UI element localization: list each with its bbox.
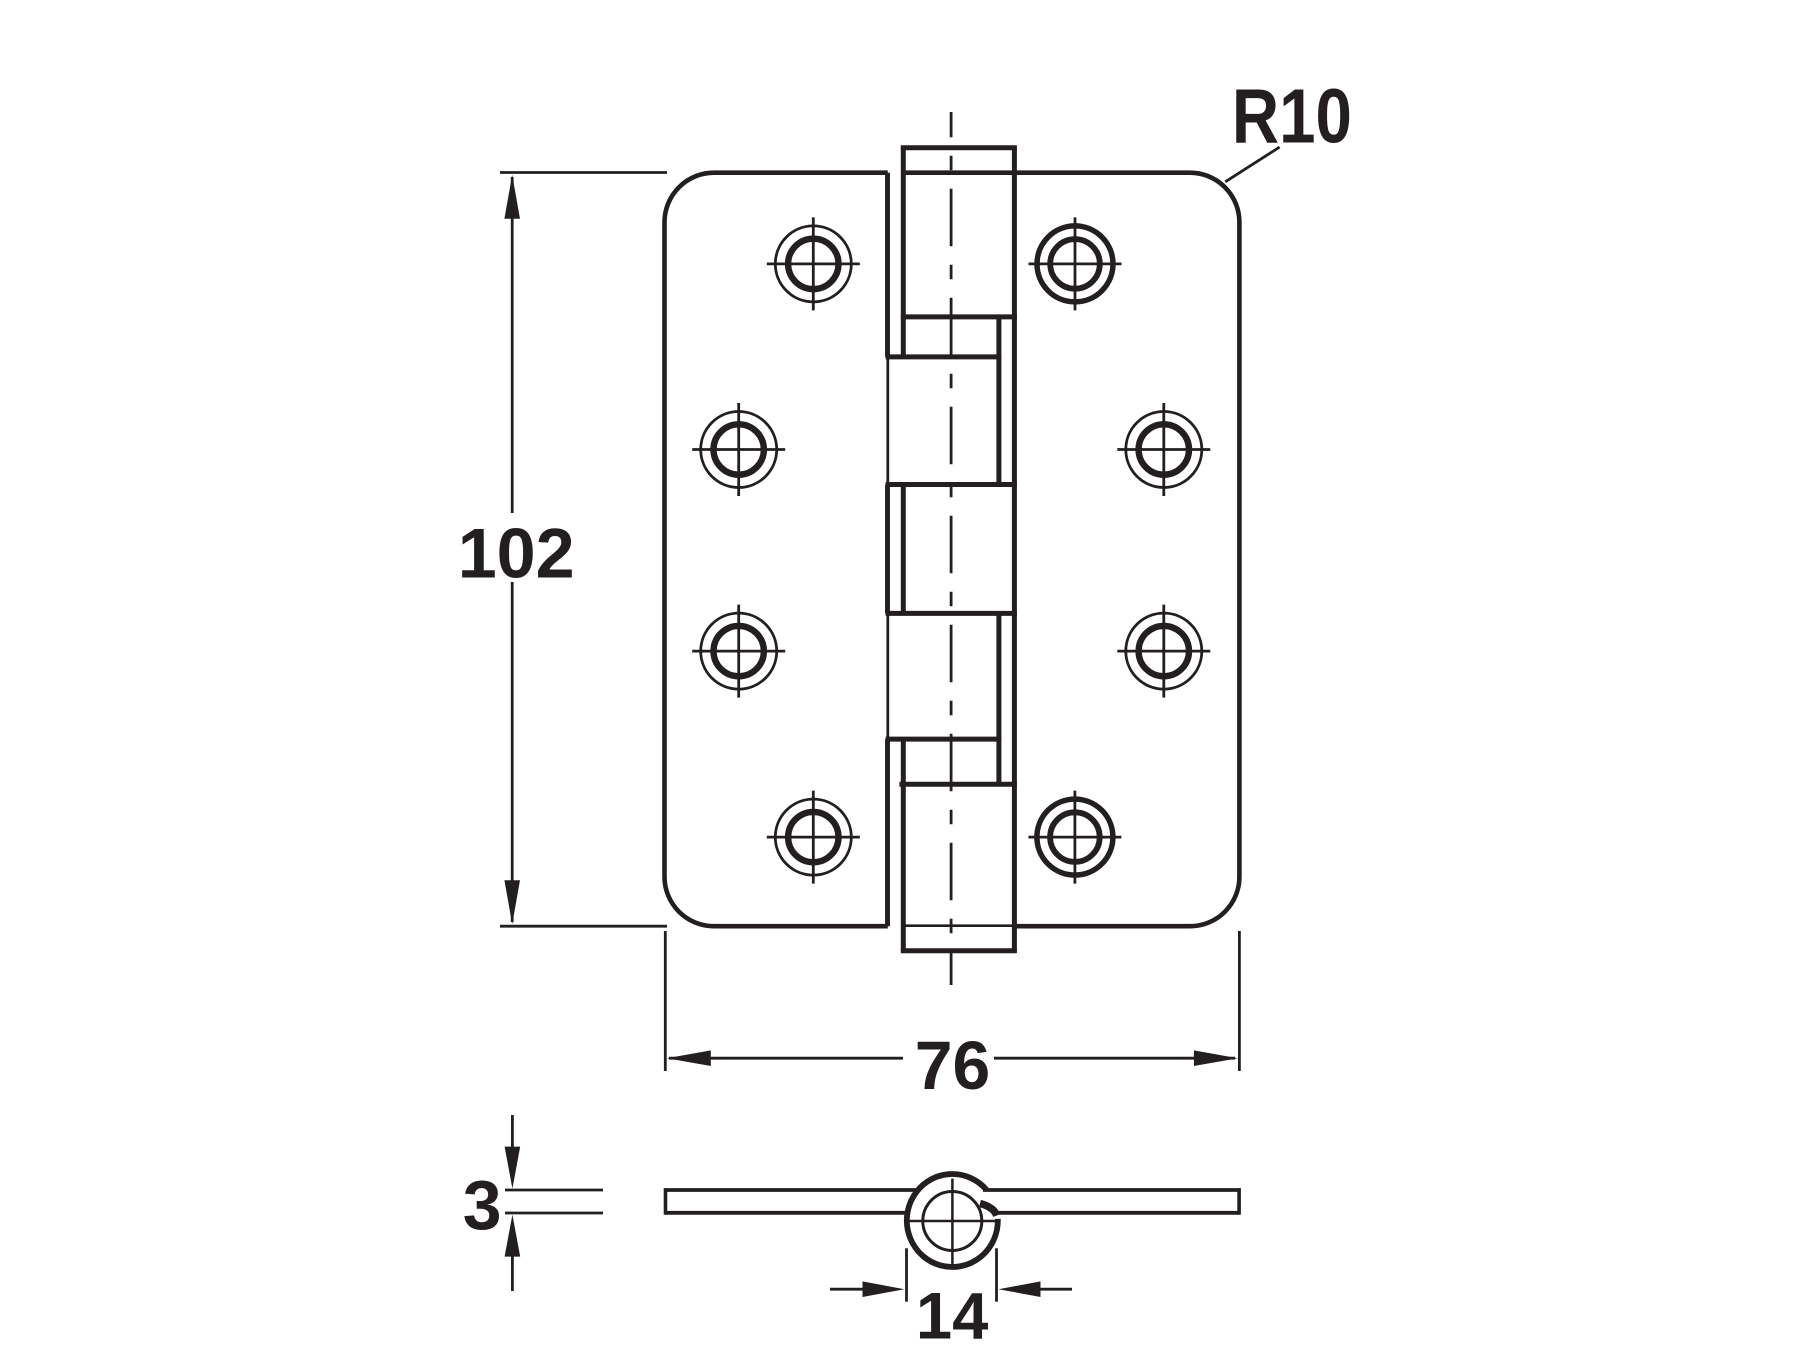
svg-text:76: 76 — [915, 1027, 991, 1104]
screw hole row3 right — [1117, 605, 1210, 698]
knuckle left wall segment 2 — [901, 485, 906, 614]
screw hole row1 left — [767, 217, 860, 310]
profile barrel outer ring (open at seam) — [907, 1174, 998, 1267]
profile left leaf bottom line — [666, 1211, 907, 1215]
knuckle slot left edge (thin parts) — [886, 357, 889, 485]
knuckle joint line C — [886, 482, 1017, 487]
screw hole row3 left — [692, 605, 785, 698]
plate bottom edge thin segment under pin cap — [903, 924, 1014, 927]
dimension 14 arrow right-pointing — [863, 1281, 905, 1297]
dimension 102 extension line top — [500, 171, 667, 174]
knuckle inner right wall upper — [996, 317, 1001, 485]
dimension 76 arrow right — [1194, 1050, 1238, 1066]
knuckle joint line E — [886, 737, 1002, 742]
profile pin circle — [923, 1192, 982, 1251]
svg-text:14: 14 — [916, 1279, 989, 1350]
screw hole row2 left — [692, 403, 785, 496]
dimension 3 arrow up — [505, 1215, 521, 1257]
radius label leader line — [1225, 147, 1279, 182]
profile left leaf end cap — [664, 1188, 668, 1215]
dimension 76 arrow left — [667, 1050, 711, 1066]
screw hole row4 right — [1028, 791, 1121, 884]
hinge leaf outline (rounded plate, right portion) — [903, 173, 1239, 927]
dimension 3 extension line bottom — [505, 1212, 603, 1215]
knuckle joint line F — [899, 782, 1017, 787]
dimension 14 extension line right — [995, 1248, 998, 1301]
knuckle outer right wall — [1012, 148, 1017, 951]
profile leaf curl wedge — [980, 1204, 997, 1216]
dimension 3 upper shaft — [511, 1115, 514, 1150]
knuckle joint line B — [886, 354, 1002, 359]
knuckle left wall segment 1 — [901, 148, 906, 357]
profile pin crosshair vertical — [951, 1179, 954, 1265]
screw hole row4 left — [767, 791, 860, 884]
profile right leaf top line — [983, 1188, 1239, 1192]
dimension 76 line right segment — [994, 1057, 1235, 1060]
dimension 102 arrow up — [504, 175, 520, 219]
dimension 14 arrow left-pointing — [999, 1281, 1041, 1297]
knuckle left wall segment 3 — [901, 739, 906, 951]
dimension 3 arrow down — [505, 1147, 521, 1189]
screw hole row2 right — [1117, 403, 1210, 496]
dimension 14 left shaft — [830, 1288, 865, 1291]
dimension 102 line upper segment — [511, 177, 514, 513]
knuckle joint line A — [901, 314, 1017, 319]
dimension 3 extension line top — [505, 1189, 603, 1192]
dimension 76 extension line left — [664, 931, 667, 1071]
dimension 76 line left segment — [669, 1057, 903, 1060]
dimension 14 extension line left — [905, 1248, 908, 1301]
screw hole row1 right — [1029, 217, 1122, 310]
pin bottom cap — [901, 948, 1017, 953]
profile right leaf bottom line — [997, 1211, 1239, 1215]
dimension 102 line lower segment — [511, 582, 514, 922]
knuckle joint line D — [886, 611, 1017, 616]
knuckle inner right wall lower — [996, 613, 1001, 784]
dimension 102 extension line bottom — [500, 925, 667, 928]
pin centerline (dash-dot) — [950, 112, 953, 985]
profile left leaf top line — [666, 1188, 918, 1192]
svg-text:R10: R10 — [1232, 73, 1352, 159]
profile right leaf end cap — [1237, 1188, 1241, 1215]
knuckle slot left edge (thick parts) — [885, 173, 890, 357]
pin top cap — [901, 145, 1017, 150]
svg-text:102: 102 — [458, 514, 575, 593]
dimension 76 extension line right — [1238, 931, 1241, 1071]
dimension 14 right shaft — [1038, 1288, 1072, 1291]
svg-text:3: 3 — [463, 1166, 502, 1244]
hinge leaf outline (rounded plate, left portion) — [665, 173, 888, 927]
dimension 102 arrow down — [504, 880, 520, 924]
dimension 3 lower shaft — [511, 1256, 514, 1291]
profile pin crosshair horizontal — [909, 1220, 1000, 1223]
